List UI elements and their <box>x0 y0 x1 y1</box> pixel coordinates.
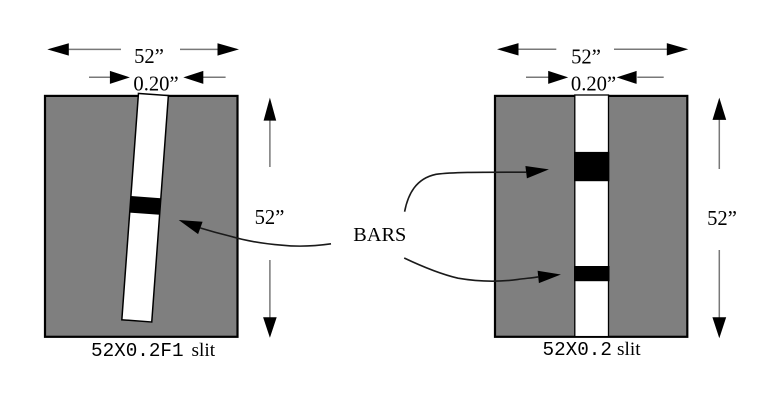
left top dimension arrow 52" <box>67 48 121 50</box>
left 0.20" dimension arrows <box>89 76 111 78</box>
svg-text:52”: 52” <box>255 207 285 229</box>
right plate (gray) <box>495 96 687 337</box>
svg-text:0.20”: 0.20” <box>133 74 178 96</box>
left vertical dimension arrow 52" <box>269 119 271 167</box>
svg-text:0.20”: 0.20” <box>571 73 616 95</box>
svg-text:52”: 52” <box>571 47 601 69</box>
right slit bar 2 (black) <box>574 266 610 281</box>
left tilted slit (white) <box>122 93 169 322</box>
svg-text:52X0.2: 52X0.2 <box>543 339 612 361</box>
svg-text:BARS: BARS <box>353 224 406 246</box>
right slit (white, vertical) <box>575 95 609 337</box>
right 0.20" dimension arrows <box>526 76 549 78</box>
right top dimension arrow 52" <box>518 48 556 50</box>
left slit bar (black) <box>130 196 161 215</box>
right vertical dimension arrow 52" <box>718 119 720 169</box>
right slit bar 1 (black) <box>574 152 609 181</box>
BARS arrow to right slit lower bar <box>404 258 538 281</box>
svg-text:52X0.2F1: 52X0.2F1 <box>91 340 184 362</box>
svg-text:slit: slit <box>617 339 641 360</box>
svg-text:52”: 52” <box>134 46 164 68</box>
BARS arrow to left slit <box>200 228 331 246</box>
svg-text:52”: 52” <box>707 208 737 230</box>
left plate (gray) <box>45 96 238 337</box>
svg-text:slit: slit <box>192 340 216 361</box>
BARS arrow to right slit upper bar <box>405 172 527 212</box>
